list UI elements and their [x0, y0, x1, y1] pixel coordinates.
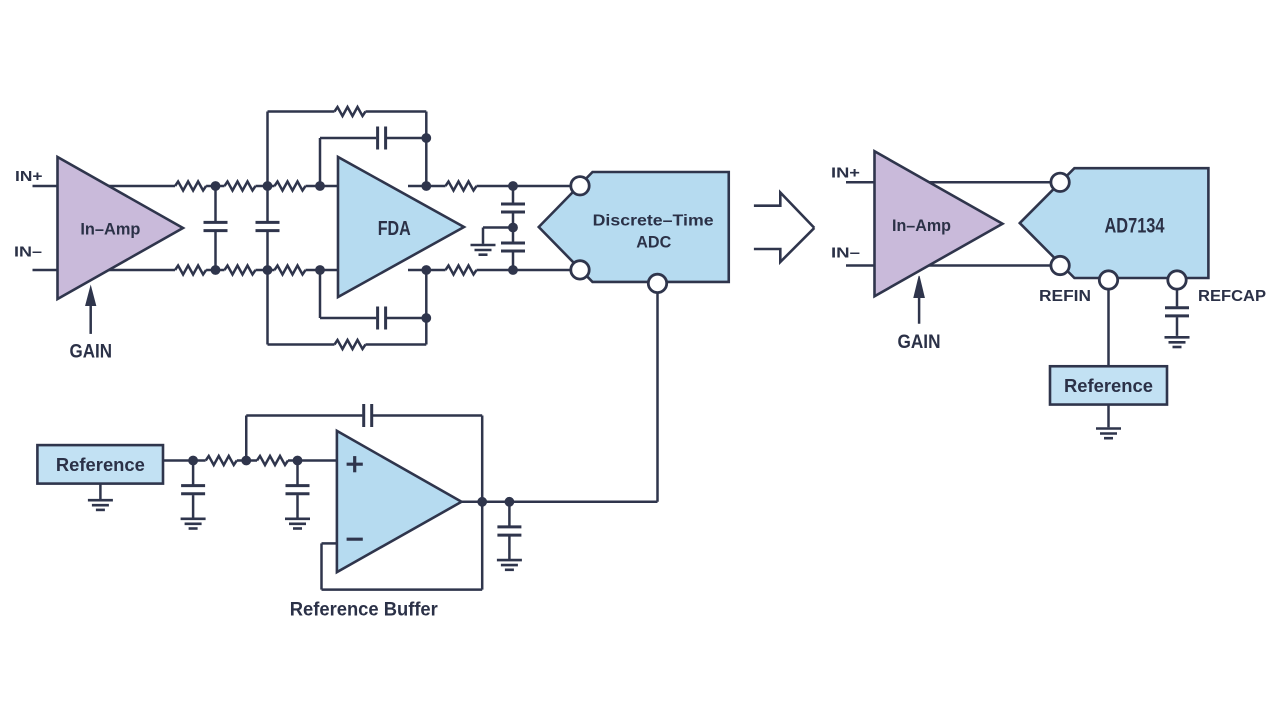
svg-text:In–Amp: In–Amp	[892, 216, 951, 235]
svg-text:IN–: IN–	[831, 245, 860, 262]
svg-text:ADC: ADC	[636, 233, 671, 252]
svg-text:REFIN: REFIN	[1039, 288, 1091, 305]
svg-text:In–Amp: In–Amp	[80, 219, 140, 238]
svg-text:Reference: Reference	[56, 455, 145, 475]
svg-text:GAIN: GAIN	[70, 342, 113, 363]
svg-text:Discrete–Time: Discrete–Time	[593, 213, 714, 230]
svg-text:IN+: IN+	[15, 168, 43, 185]
svg-text:IN+: IN+	[831, 165, 860, 182]
svg-text:FDA: FDA	[378, 218, 411, 240]
svg-text:Reference Buffer: Reference Buffer	[290, 598, 438, 620]
svg-text:REFCAP: REFCAP	[1198, 288, 1266, 305]
svg-text:GAIN: GAIN	[898, 332, 941, 353]
svg-text:IN–: IN–	[14, 243, 42, 260]
svg-text:AD7134: AD7134	[1105, 214, 1165, 237]
svg-text:Reference: Reference	[1064, 376, 1153, 396]
